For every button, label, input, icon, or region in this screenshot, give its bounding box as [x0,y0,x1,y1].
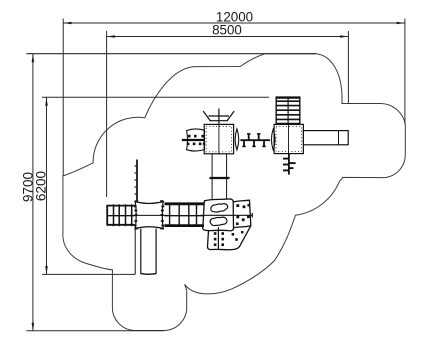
svg-text:6200: 6200 [34,170,49,201]
svg-text:8500: 8500 [212,23,242,38]
